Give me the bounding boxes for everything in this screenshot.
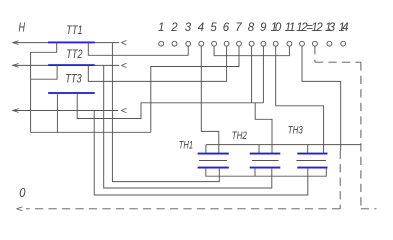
svg-text:1: 1 <box>158 22 164 34</box>
arrowhead right phase A <box>122 40 127 44</box>
svg-text:4: 4 <box>198 22 204 34</box>
wire jog terminal 9 to TH2 winding top right <box>255 103 272 153</box>
wire TH2 bottom left tap <box>254 169 256 177</box>
terminal block circles <box>159 41 346 46</box>
wire terminal 12a to solid drop right <box>302 46 341 151</box>
current transformer TT3 winding <box>48 92 95 94</box>
svg-text:6: 6 <box>223 22 230 34</box>
svg-text:TH3: TH3 <box>288 125 304 137</box>
voltage transformer TH3 winding 2 <box>297 167 327 169</box>
svg-text:10: 10 <box>271 22 282 34</box>
wire dashed neutral from drop to bottom left arrow <box>26 151 340 209</box>
terminal 12a <box>300 41 305 46</box>
wire phase C with left arrow <box>12 109 118 113</box>
svg-text:TH1: TH1 <box>179 140 193 152</box>
arrowhead right phase B <box>122 63 127 67</box>
svg-text:2: 2 <box>170 22 178 34</box>
terminal 7 <box>237 41 242 46</box>
svg-text:3: 3 <box>185 22 192 34</box>
wire TT1 drop to TH1 bottom right <box>112 43 219 182</box>
wire TT3 tap1 down <box>56 94 58 132</box>
svg-text:0: 0 <box>19 185 26 200</box>
wire terminal 10 to TH3 winding top right <box>276 46 324 153</box>
wire phase B with left arrow <box>12 64 119 68</box>
voltage transformer TH2 winding 1 <box>250 153 281 155</box>
wire voltage bus <box>206 144 361 146</box>
wire TH1 top left tap <box>205 145 207 153</box>
svg-text:13: 13 <box>325 22 336 34</box>
wire TH3 top left tap <box>307 145 309 153</box>
terminal 8 <box>249 41 254 46</box>
voltage transformer TH3 core <box>297 160 327 162</box>
wire phase A with left arrow <box>12 41 119 45</box>
wire TT2 drop to TH2 bottom right <box>104 65 272 188</box>
wire TH secondary chain TH1 left to TH3 right <box>206 169 326 177</box>
wire TT2 tap2 to terminal 6 <box>88 46 226 81</box>
wire TH2 top left tap <box>258 145 260 153</box>
arrowhead bottom neutral <box>17 207 23 211</box>
voltage transformer TH3 winding 1 <box>297 153 327 155</box>
voltage transformer TH1 winding 2 <box>198 167 229 169</box>
terminal number labels <box>158 22 349 34</box>
wire terminal 8 drop <box>251 46 253 103</box>
wire TT1 tap2 to terminal 3 <box>88 43 188 56</box>
svg-text:5: 5 <box>210 22 217 34</box>
wire ground collector <box>31 131 151 133</box>
wire dashed terminal 12b route <box>315 46 377 209</box>
svg-text:TT3: TT3 <box>65 73 82 85</box>
terminal 12b <box>313 41 318 46</box>
current transformer TT2 winding <box>48 64 95 66</box>
wire TT2 tap1 to left bus <box>31 65 57 79</box>
wire terminal 7 to ground collector <box>151 46 239 132</box>
svg-text:8: 8 <box>248 22 255 34</box>
svg-text:TT2: TT2 <box>66 49 83 61</box>
terminal 1 <box>159 41 164 46</box>
svg-text:TT1: TT1 <box>66 25 82 37</box>
voltage transformer TH2 core <box>252 160 279 162</box>
svg-text:12=12: 12=12 <box>296 22 323 34</box>
current transformer TT1 winding <box>48 42 95 44</box>
wire TT3 tap2 to terminals 8 and 9 <box>77 94 263 119</box>
wire TT1 tap1 to left bus <box>31 43 57 133</box>
svg-text:H: H <box>19 21 26 35</box>
svg-text:11: 11 <box>285 22 296 34</box>
terminal 11 <box>287 41 292 46</box>
terminal 6 <box>224 41 229 46</box>
voltage transformer TH1 winding 1 <box>198 153 229 155</box>
wire terminal 4 to TH1 winding top right <box>201 46 219 153</box>
terminal 10 <box>273 41 278 46</box>
terminal 14 <box>341 41 346 46</box>
voltage transformer TH2 winding 2 <box>250 167 281 169</box>
terminal 3 <box>186 41 191 46</box>
wire terminal 5 to terminal 11 <box>214 46 289 56</box>
terminal 4 <box>199 41 204 46</box>
terminal 13 <box>327 41 332 46</box>
voltage transformer TH1 core <box>199 160 227 162</box>
wire terminal 9 drop <box>262 46 264 103</box>
svg-text:TH2: TH2 <box>232 130 247 142</box>
wire TT3 drop to TH3 bottom left <box>94 111 308 196</box>
svg-text:7: 7 <box>235 22 242 34</box>
terminal 2 <box>172 41 177 46</box>
terminal 9 <box>261 41 266 46</box>
svg-text:14: 14 <box>339 22 349 34</box>
svg-text:9: 9 <box>260 22 267 34</box>
terminal 5 <box>212 41 217 46</box>
arrowhead right phase C <box>122 108 127 112</box>
